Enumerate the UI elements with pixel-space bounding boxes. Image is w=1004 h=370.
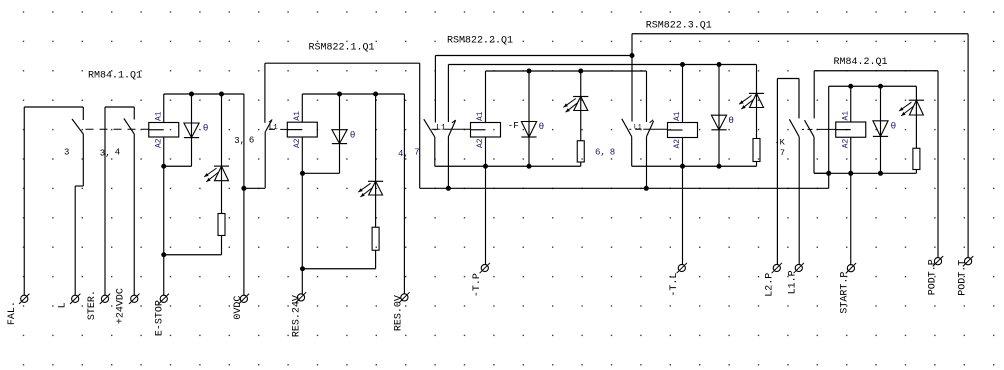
svg-text:θ: θ <box>203 123 209 134</box>
svg-text:A1: A1 <box>293 111 302 121</box>
svg-text:0VDC: 0VDC <box>233 296 244 320</box>
svg-text:4: 4 <box>115 147 120 157</box>
svg-text:L2.P: L2.P <box>765 273 776 297</box>
svg-text:3,: 3, <box>234 136 245 146</box>
svg-text:6,: 6, <box>595 147 606 157</box>
svg-text:A2: A2 <box>293 138 302 148</box>
svg-text:A1: A1 <box>673 111 682 121</box>
svg-text:START.P: START.P <box>840 272 851 314</box>
svg-text:FAL.: FAL. <box>7 301 18 325</box>
svg-text:RM84.1.Q1: RM84.1.Q1 <box>88 70 142 81</box>
svg-text:θ: θ <box>728 115 734 126</box>
svg-text:L1: L1 <box>436 123 446 132</box>
svg-text:7: 7 <box>780 148 785 158</box>
svg-text:+24VDC: +24VDC <box>116 288 127 324</box>
svg-text:8: 8 <box>610 147 615 157</box>
svg-text:7: 7 <box>414 147 419 157</box>
svg-text:θ: θ <box>539 121 545 132</box>
svg-text:RES.24V: RES.24V <box>292 295 303 337</box>
svg-text:RES.0V: RES.0V <box>394 295 405 331</box>
svg-text:STER.: STER. <box>87 290 98 320</box>
svg-text:-K: -K <box>775 138 786 148</box>
svg-text:-T.P: -T.P <box>472 273 483 297</box>
svg-text:PODT.P: PODT.P <box>928 259 939 295</box>
svg-text:6: 6 <box>249 135 254 145</box>
svg-text:A2: A2 <box>673 139 682 149</box>
svg-text:RM84.2.Q1: RM84.2.Q1 <box>834 57 888 68</box>
svg-text:L1: L1 <box>269 124 279 132</box>
svg-text:3: 3 <box>64 147 69 157</box>
svg-text:A1: A1 <box>154 111 163 121</box>
svg-text:RSM822.3.Q1: RSM822.3.Q1 <box>646 21 712 32</box>
svg-text:A1: A1 <box>476 111 485 121</box>
svg-text:θ: θ <box>350 130 356 141</box>
svg-text:-T.L: -T.L <box>669 273 680 297</box>
svg-text:RSM822.1.Q1: RSM822.1.Q1 <box>309 42 375 53</box>
svg-text:3,: 3, <box>100 148 111 158</box>
svg-text:θ: θ <box>891 121 897 132</box>
svg-text:4,: 4, <box>398 149 409 159</box>
svg-text:RSM822.2.Q1: RSM822.2.Q1 <box>447 35 513 46</box>
svg-text:PODT.T: PODT.T <box>958 260 969 296</box>
svg-text:A2: A2 <box>154 138 163 148</box>
svg-text:-F: -F <box>508 120 520 131</box>
svg-text:L1.P: L1.P <box>788 270 799 294</box>
svg-text:A1: A1 <box>841 111 850 121</box>
svg-text:A2: A2 <box>841 138 850 148</box>
svg-text:L: L <box>58 302 69 308</box>
svg-text:E-STOP: E-STOP <box>154 300 165 336</box>
svg-text:A2: A2 <box>476 138 485 148</box>
